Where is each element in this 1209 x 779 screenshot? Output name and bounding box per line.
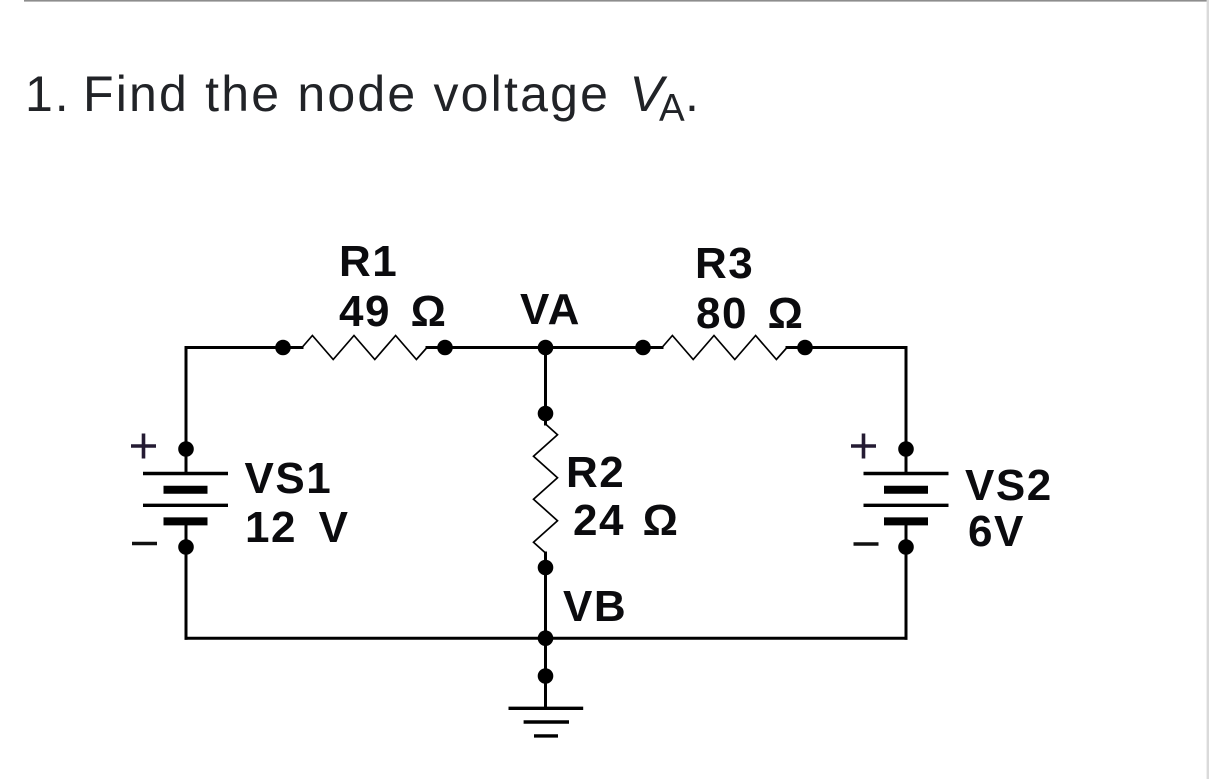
resistor R1 zigzag: [302, 336, 427, 360]
svg-text:80 Ω: 80 Ω: [696, 289, 804, 338]
svg-text:49 Ω: 49 Ω: [339, 287, 447, 336]
svg-text:VS1: VS1: [245, 454, 333, 503]
node dot VA: [538, 340, 554, 356]
node dot VS2 top: [898, 441, 914, 457]
right border line: [1207, 0, 1209, 779]
svg-text:A: A: [659, 87, 685, 130]
svg-text:VA: VA: [520, 285, 581, 334]
svg-text:6V: 6V: [968, 507, 1025, 556]
svg-text:VB: VB: [563, 582, 627, 631]
wire: bottom rail: [186, 637, 906, 640]
node dot R2 bottom: [538, 560, 554, 576]
wire: right rail lower: [905, 525, 908, 638]
VS1 plus sign: [131, 434, 156, 459]
VS1 minus sign: [132, 542, 157, 546]
VS2 minus sign: [854, 542, 879, 546]
svg-text:VS2: VS2: [965, 461, 1053, 510]
svg-text:24 Ω: 24 Ω: [573, 496, 679, 545]
node dot VS1 bottom: [178, 539, 194, 555]
svg-text:.: .: [685, 66, 699, 122]
top border hairline: [24, 0, 1209, 2]
node dot R1 right: [437, 340, 453, 356]
battery VS1 plates: [143, 474, 228, 522]
svg-text:12 V: 12 V: [245, 503, 350, 552]
wire: top rail left segment: [186, 346, 302, 349]
battery VS2 plates: [864, 474, 949, 522]
resistor R3 zigzag: [662, 336, 787, 360]
svg-text:Find the node voltage: Find the node voltage: [83, 66, 610, 122]
wire: top rail middle segment: [427, 346, 662, 349]
node dot VS1 top: [178, 441, 194, 457]
VS2 plus sign: [851, 434, 876, 459]
node dot R2 top: [538, 406, 554, 422]
resistor R2 zigzag: [534, 424, 558, 553]
wire: left rail lower: [185, 525, 188, 638]
ground symbol: [509, 708, 584, 736]
node dot R3 right: [797, 340, 813, 356]
wire: ground stem: [544, 638, 547, 707]
svg-text:R2: R2: [566, 448, 625, 497]
node dot R1 left: [275, 340, 291, 356]
svg-text:R1: R1: [339, 237, 398, 286]
wire: right rail upper: [905, 348, 908, 473]
wire: middle branch upper (VA to R2): [544, 348, 547, 425]
node dot VS2 bottom: [898, 539, 914, 555]
svg-text:1.: 1.: [25, 66, 71, 122]
node dot ground stem: [538, 668, 554, 684]
svg-text:R3: R3: [695, 239, 754, 288]
title: 1. Find the node voltage VA.: [25, 66, 699, 130]
node dot VB junction: [538, 630, 554, 646]
wire: top rail right segment: [787, 346, 906, 349]
node dot R3 left: [635, 340, 651, 356]
wire: middle branch lower (R2 to bottom rail): [544, 553, 547, 638]
wire: left rail upper: [185, 348, 188, 473]
